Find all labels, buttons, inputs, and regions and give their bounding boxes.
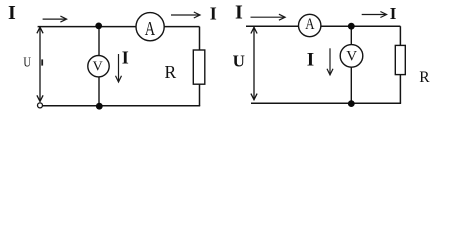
svg-text:V: V — [93, 60, 103, 75]
svg-text:V: V — [346, 48, 357, 64]
wire: voltmeter branch right circuit — [350, 26, 352, 103]
resistor R1 body (left circuit) — [193, 50, 205, 84]
wire: bottom conductor left circuit — [43, 105, 201, 107]
voltmeter V2 circle (right circuit) — [340, 45, 363, 68]
node: junction bottom of voltmeter branch (left) — [96, 103, 103, 110]
wire: top conductor left circuit — [38, 26, 200, 28]
tick mark on voltage line (left circuit) — [41, 59, 43, 65]
current arrow through voltmeter branch (right circuit) — [327, 48, 333, 75]
svg-text:I: I — [307, 50, 314, 71]
current arrow after junction (right circuit) — [362, 12, 387, 18]
wire: voltmeter branch left circuit — [98, 27, 100, 106]
current arrow out of ammeter (left circuit) — [171, 12, 200, 18]
svg-text:A: A — [305, 16, 315, 34]
current arrow through voltmeter branch (left circuit) — [116, 54, 122, 82]
wire: right conductor left circuit — [199, 27, 201, 106]
svg-text:I: I — [122, 48, 129, 68]
resistor R2 body (right circuit) — [395, 45, 405, 74]
svg-text:I: I — [210, 4, 217, 24]
wire: bottom conductor right circuit — [251, 102, 401, 104]
svg-text:U: U — [233, 51, 245, 70]
wire: top conductor right circuit — [246, 25, 400, 27]
svg-text:R: R — [419, 69, 430, 86]
svg-text:I: I — [235, 1, 243, 23]
svg-text:I: I — [390, 4, 397, 23]
svg-text:R: R — [165, 62, 177, 82]
current arrow into left circuit — [43, 16, 67, 22]
ammeter A2 circle (right circuit) — [299, 14, 321, 36]
wire: right conductor right circuit — [399, 26, 401, 103]
voltmeter V1 circle (left circuit) — [88, 55, 109, 76]
node: junction top of voltmeter branch (right) — [348, 23, 355, 30]
voltage arrow U (right circuit, double-headed vertical line) — [251, 26, 257, 99]
svg-text:A: A — [145, 17, 156, 40]
ammeter A1 circle (left circuit) — [136, 13, 164, 41]
svg-text:I: I — [8, 2, 16, 24]
current arrow into right circuit — [251, 14, 286, 20]
voltage arrow U (left circuit, double-headed vertical line) — [37, 27, 43, 102]
node: junction bottom of voltmeter branch (right) — [348, 100, 355, 107]
svg-text:U: U — [23, 54, 31, 70]
terminal: open circle bottom-left of left circuit — [38, 103, 43, 108]
node: junction top of voltmeter branch (left) — [95, 23, 102, 30]
